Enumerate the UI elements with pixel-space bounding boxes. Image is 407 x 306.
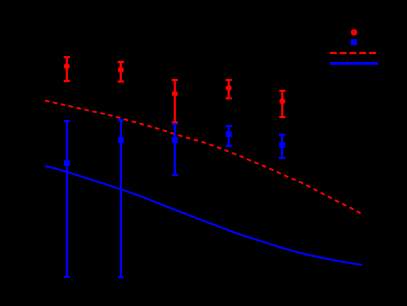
red errorbar point 5 (279, 91, 285, 117)
blue solid model curve (45, 166, 362, 265)
legend marker: red circle (351, 29, 357, 35)
blue errorbar point 5 (279, 135, 285, 158)
red errorbar point 3 (172, 80, 178, 123)
legend marker: blue square (351, 39, 357, 45)
red dashed model curve (45, 101, 362, 215)
blue errorbar point 2 (118, 120, 124, 277)
blue errorbar point 3 (172, 124, 178, 175)
legend line: red dashed (330, 52, 376, 54)
red errorbar point 1 (64, 57, 70, 81)
red errorbar point 4 (226, 80, 232, 98)
blue errorbar point 4 (226, 126, 232, 146)
blue errorbar point 1 (64, 121, 70, 277)
red errorbar point 2 (118, 62, 124, 82)
legend line: blue solid (330, 62, 378, 65)
